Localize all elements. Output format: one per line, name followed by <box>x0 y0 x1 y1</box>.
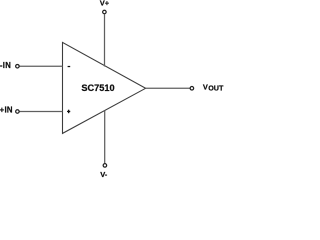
svg-text:OUT: OUT <box>208 84 224 93</box>
op-amp U1 body <box>63 42 146 133</box>
wire -IN input <box>19 65 62 67</box>
wire V+ supply <box>104 14 106 66</box>
wire +IN input <box>19 111 62 113</box>
terminal circle -IN <box>16 64 20 68</box>
svg-text:V+: V+ <box>100 0 110 8</box>
non-inverting input plus marker <box>67 111 70 112</box>
terminal circle VOUT <box>190 87 194 91</box>
svg-text:V: V <box>203 82 208 91</box>
terminal circle +IN <box>16 110 20 114</box>
wire VOUT output <box>146 87 190 89</box>
wire V- supply <box>104 111 106 164</box>
terminal circle V+ <box>103 10 107 14</box>
inverting input minus marker <box>68 66 71 67</box>
svg-text:-IN: -IN <box>0 61 11 70</box>
svg-text:SC7510: SC7510 <box>81 83 114 93</box>
svg-text:V-: V- <box>100 170 108 179</box>
terminal circle V- <box>103 164 107 168</box>
svg-text:+IN: +IN <box>0 106 13 115</box>
